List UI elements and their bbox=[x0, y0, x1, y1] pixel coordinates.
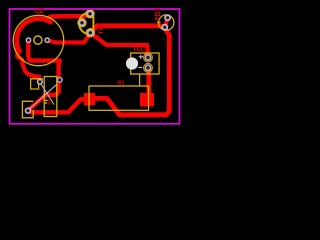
svg-text:R1: R1 bbox=[118, 81, 125, 87]
svg-text:PD1: PD1 bbox=[155, 7, 162, 21]
svg-text:U2: U2 bbox=[35, 8, 44, 15]
svg-text:LED1: LED1 bbox=[134, 47, 148, 53]
svg-text:TR1: TR1 bbox=[98, 22, 105, 35]
